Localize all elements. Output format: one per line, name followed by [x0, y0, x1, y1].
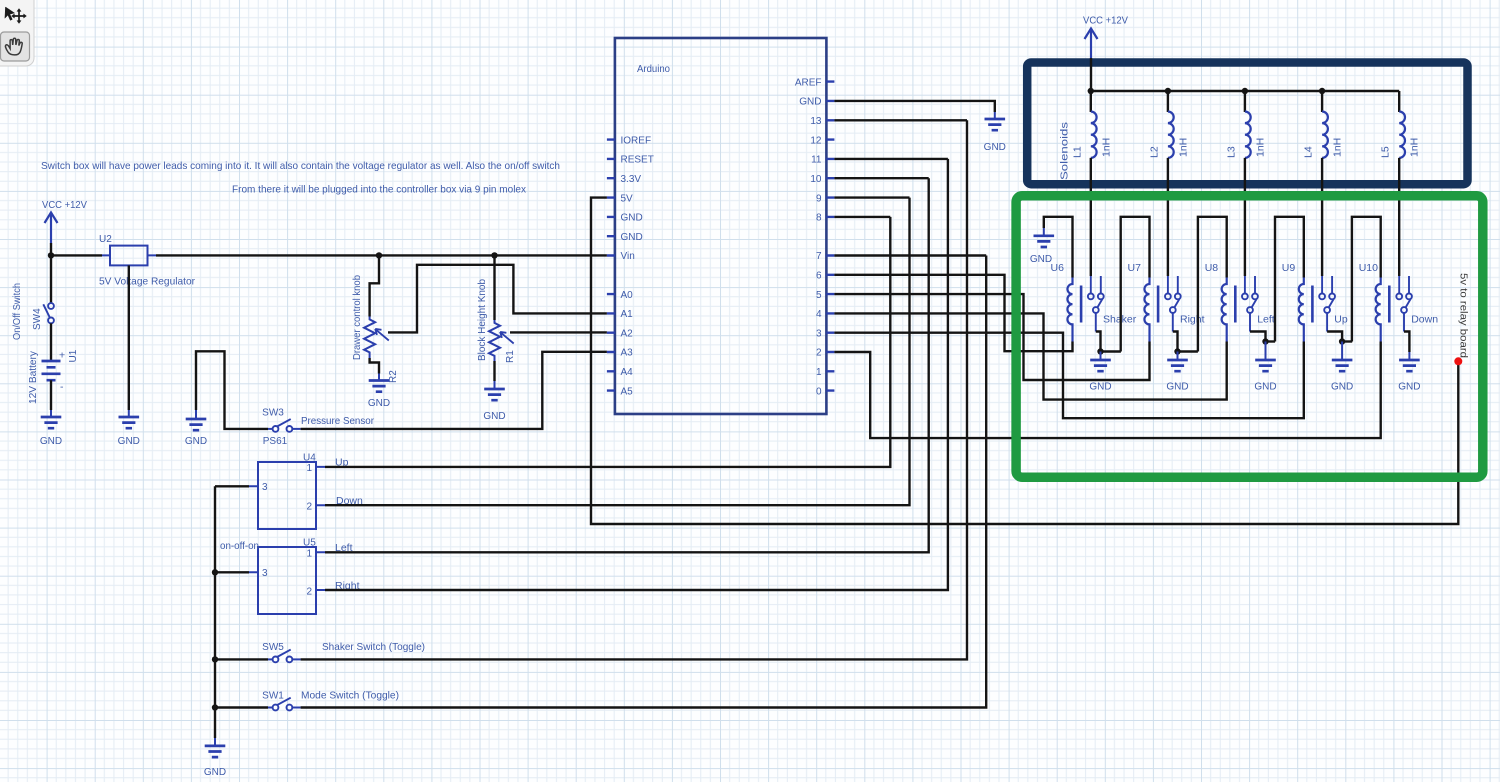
- svg-text:From there it will be plugged: From there it will be plugged into the c…: [232, 184, 527, 196]
- toolbar pan hand icon: [5, 38, 22, 55]
- svg-text:SW3: SW3: [262, 408, 284, 419]
- wire SW3 to A3: [301, 352, 607, 429]
- wire pin 11 row: [834, 158, 948, 160]
- wire bus to SW1: [215, 706, 268, 708]
- wire pin 4 to U8 coil: [834, 313, 1226, 399]
- ground (battery): [50, 410, 52, 417]
- wire junction to R1: [493, 255, 495, 320]
- switch SW3 pressure sensor: [268, 428, 272, 430]
- ground (relay U7): [1177, 352, 1179, 361]
- relay enclosure box: [1016, 196, 1483, 477]
- wire L4 to relay contact: [1321, 158, 1323, 276]
- svg-text:3.3V: 3.3V: [621, 174, 642, 185]
- ground (relay U6 top): [1043, 228, 1045, 236]
- wire VCC to junction: [50, 243, 52, 255]
- svg-text:GND: GND: [1331, 382, 1353, 393]
- potentiometer R1: [489, 320, 500, 361]
- U4 pin stubs: [249, 467, 325, 505]
- svg-text:GND: GND: [185, 436, 207, 447]
- svg-text:+: +: [59, 350, 65, 362]
- relay U6 coil: [1067, 278, 1072, 342]
- battery U1: [42, 361, 61, 380]
- svg-text:GND: GND: [118, 436, 140, 447]
- wire left bus vertical: [214, 486, 216, 738]
- relay U9 coil: [1299, 278, 1304, 342]
- relay U9 contact throw stubs: [1322, 276, 1332, 294]
- svg-text:L5: L5: [1380, 146, 1392, 158]
- wire U7 coil top inverted-U: [1121, 217, 1150, 352]
- wire L2 to relay contact: [1167, 158, 1169, 276]
- svg-text:1nH: 1nH: [1177, 138, 1189, 157]
- svg-text:U2: U2: [99, 234, 112, 245]
- svg-text:U5: U5: [303, 538, 316, 549]
- ground (R2): [378, 374, 380, 381]
- node bus/SW1: [212, 704, 218, 710]
- node bus/SW5: [212, 656, 218, 662]
- node junction VCC/U2: [48, 252, 54, 258]
- wire pin 8 row: [834, 216, 890, 218]
- svg-text:5v to relay board: 5v to relay board: [1458, 273, 1470, 358]
- svg-text:2: 2: [306, 502, 312, 513]
- svg-text:4: 4: [816, 309, 822, 320]
- svg-text:12: 12: [810, 135, 822, 146]
- svg-text:GND: GND: [1030, 254, 1052, 265]
- inductor L5: [1399, 112, 1405, 158]
- node 5v dangling (red): [1454, 357, 1462, 365]
- svg-text:1nH: 1nH: [1332, 138, 1344, 157]
- wire bus to L4: [1321, 91, 1323, 112]
- regulator U2 body: [110, 246, 148, 266]
- wire battery to GND: [50, 380, 52, 410]
- node Vin junction (R1): [491, 252, 497, 258]
- ground (relay U10): [1408, 352, 1410, 360]
- svg-text:1nH: 1nH: [1409, 138, 1421, 157]
- svg-text:A1: A1: [621, 309, 634, 320]
- relay U7 contact circles: [1165, 294, 1171, 300]
- wire U9 common to ground: [1327, 332, 1342, 342]
- Arduino U3 body: [615, 38, 827, 414]
- svg-text:8: 8: [816, 213, 822, 224]
- svg-text:1nH: 1nH: [1254, 138, 1266, 157]
- svg-text:GND: GND: [1254, 382, 1276, 393]
- svg-text:U10: U10: [1359, 262, 1378, 274]
- svg-text:GND: GND: [621, 232, 643, 243]
- svg-text:L3: L3: [1225, 146, 1237, 158]
- svg-text:12V Battery: 12V Battery: [28, 351, 39, 404]
- wire pin 2 to U10 coil: [834, 342, 1380, 439]
- wire U9 junction to next relay: [1342, 340, 1352, 342]
- ground (Arduino): [994, 112, 996, 119]
- svg-text:9: 9: [816, 193, 822, 204]
- svg-text:Arduino: Arduino: [637, 63, 670, 75]
- Arduino right pin stubs: [826, 82, 834, 391]
- svg-text:Down: Down: [1411, 314, 1438, 326]
- svg-text:U1: U1: [68, 349, 79, 362]
- ground (U2): [128, 410, 130, 417]
- U5 pin stubs: [249, 552, 325, 590]
- svg-text:L2: L2: [1148, 146, 1160, 158]
- wire bus to SW5: [215, 658, 268, 660]
- svg-text:GND: GND: [368, 398, 390, 409]
- wire R1 wiper to A2: [510, 331, 607, 333]
- relay U8 coil: [1222, 278, 1227, 342]
- svg-text:U7: U7: [1128, 262, 1142, 274]
- wire R1 to GND: [493, 361, 495, 381]
- switch block U4 body: [258, 462, 316, 529]
- wire SW5 to pin13 riser: [301, 120, 967, 659]
- ground (relay U6): [1100, 352, 1102, 361]
- svg-text:Mode Switch (Toggle): Mode Switch (Toggle): [301, 690, 399, 702]
- inductor L3: [1245, 112, 1251, 158]
- svg-text:GND: GND: [799, 97, 821, 108]
- switch SW5: [268, 658, 272, 660]
- node U9 common junction: [1339, 338, 1345, 344]
- wire Right (U5.2 to pin11 riser): [325, 159, 948, 590]
- wire pin 5 to U7 coil: [834, 294, 1149, 380]
- wire junction to R2: [370, 255, 379, 316]
- wire L5 to relay contact: [1398, 158, 1400, 276]
- toolbar pan-tool button (selected): [1, 32, 30, 61]
- node U7 common junction: [1174, 348, 1180, 354]
- svg-text:1: 1: [306, 549, 312, 560]
- relay U7 coil: [1144, 278, 1149, 342]
- wire SW4 to battery: [50, 323, 52, 361]
- svg-text:SW5: SW5: [262, 642, 284, 653]
- svg-text:Solenoids: Solenoids: [1059, 122, 1071, 180]
- ground (switch bus): [214, 738, 216, 746]
- wire U2 to GND: [128, 265, 130, 410]
- toolbar move-tool icon: [5, 7, 27, 24]
- svg-text:GND: GND: [621, 213, 643, 224]
- inductor L1: [1091, 112, 1097, 158]
- relay U7 core bar: [1157, 286, 1160, 323]
- wire GND pin to ground: [834, 101, 994, 112]
- svg-text:GND: GND: [1398, 382, 1420, 393]
- svg-text:2: 2: [306, 587, 312, 598]
- wire GND to SW3 (n-shape): [196, 351, 268, 429]
- wire bus to L5: [1398, 91, 1400, 112]
- svg-text:SW4: SW4: [32, 308, 43, 330]
- relay U7 contact throw stubs: [1168, 276, 1178, 294]
- power flag VCC +12V (solenoids): [1090, 29, 1092, 60]
- svg-text:IOREF: IOREF: [621, 135, 652, 146]
- relay U10 contact circles: [1396, 294, 1402, 300]
- svg-text:VCC +12V: VCC +12V: [1083, 15, 1128, 27]
- svg-text:A3: A3: [621, 348, 634, 359]
- relay U6 contact circles: [1088, 294, 1094, 300]
- svg-text:Block Height Knob: Block Height Knob: [477, 279, 488, 361]
- relay U10 common lead: [1403, 313, 1405, 332]
- node U8 common junction: [1262, 338, 1268, 344]
- wire junction to U2: [51, 254, 102, 256]
- relay U8 contact throw stubs: [1245, 276, 1255, 294]
- svg-text:L1: L1: [1071, 146, 1083, 158]
- wire U7 junction to next relay: [1178, 350, 1198, 352]
- svg-text:On/Off Switch: On/Off Switch: [12, 283, 23, 340]
- inductor L2: [1168, 112, 1174, 158]
- svg-text:3: 3: [262, 482, 268, 493]
- wire bus to L3: [1244, 91, 1246, 112]
- relay U10 contact throw stubs: [1399, 276, 1409, 294]
- relay U8 core bar: [1234, 286, 1237, 323]
- wire Left (U5.1 to pin10 riser): [325, 178, 929, 552]
- wire junction down to SW4: [50, 255, 52, 302]
- wire VCC to solenoid bus: [1090, 58, 1092, 91]
- svg-text:GND: GND: [984, 142, 1006, 153]
- svg-text:Drawer control knob: Drawer control knob: [352, 275, 363, 360]
- inductor L4: [1322, 112, 1328, 158]
- svg-text:10: 10: [810, 174, 822, 185]
- wire U9 coil top inverted-U: [1275, 217, 1304, 342]
- relay U10 core bar: [1388, 286, 1391, 323]
- svg-text:on-off-on: on-off-on: [220, 540, 259, 552]
- svg-text:Right: Right: [1180, 314, 1205, 326]
- svg-text:SW1: SW1: [262, 691, 284, 702]
- node bus/U5 pin3: [212, 569, 218, 575]
- wire L3 to relay contact: [1244, 158, 1246, 276]
- svg-text:U6: U6: [1051, 262, 1065, 274]
- svg-text:U4: U4: [303, 453, 316, 464]
- svg-text:A4: A4: [621, 367, 634, 378]
- ground (R1): [494, 381, 496, 389]
- svg-text:Left: Left: [1257, 314, 1275, 326]
- wire U6 top to GND (n-shape): [1044, 217, 1073, 278]
- svg-text:3: 3: [262, 568, 268, 579]
- wire U2 to Vin (net VIN): [156, 254, 607, 256]
- wire Up (U4.1 to pin8 riser): [325, 217, 890, 467]
- svg-text:RESET: RESET: [621, 155, 654, 166]
- relay U8 contact circles: [1242, 294, 1248, 300]
- ground (relay U8): [1265, 342, 1267, 361]
- relay U6 common lead: [1095, 313, 1097, 332]
- svg-text:1: 1: [816, 367, 822, 378]
- ground (relay U9): [1341, 342, 1343, 361]
- wire U7 common to ground: [1173, 332, 1178, 352]
- svg-text:5V: 5V: [621, 193, 634, 204]
- toolbar panel: [0, 0, 34, 66]
- wire U6 junction to next relay: [1101, 350, 1121, 352]
- svg-text:Switch box will have power lea: Switch box will have power leads coming …: [41, 160, 560, 172]
- relay U9 core bar: [1311, 286, 1314, 323]
- wire bus to L1: [1090, 91, 1092, 112]
- svg-text:Up: Up: [1334, 314, 1348, 326]
- relay U9 contact circles: [1319, 294, 1325, 300]
- ground (pressure sensor): [195, 410, 197, 419]
- wire L1 to relay contact: [1090, 158, 1092, 276]
- wire R2 to GND: [370, 358, 379, 374]
- node Vin junction (R2): [376, 252, 382, 258]
- wire solenoid bus: [1091, 90, 1399, 92]
- wire 5V to relay board: [591, 198, 1458, 524]
- wire pin 7 row: [834, 254, 986, 256]
- wire pin 3 to U9 coil: [834, 333, 1303, 419]
- svg-text:GND: GND: [40, 436, 62, 447]
- wire U10 common to ground: [1404, 332, 1409, 353]
- svg-text:2: 2: [816, 348, 822, 359]
- solenoid enclosure box: [1027, 63, 1467, 185]
- Arduino left pin stubs: [607, 140, 615, 391]
- svg-text:R1: R1: [505, 350, 516, 363]
- svg-text:6: 6: [816, 271, 822, 282]
- svg-text:Shaker Switch (Toggle): Shaker Switch (Toggle): [322, 641, 425, 653]
- wire bus to U4 pin3: [215, 485, 249, 487]
- wire bus to U5 pin3: [215, 571, 249, 573]
- svg-text:5V Voltage Regulator: 5V Voltage Regulator: [99, 276, 195, 288]
- wire SW1 to pin7 riser: [301, 256, 987, 708]
- node bus/L3: [1242, 88, 1248, 94]
- wire bus to L2: [1167, 91, 1169, 112]
- svg-text:GND: GND: [1089, 382, 1111, 393]
- switch block U5 body: [258, 547, 316, 614]
- svg-text:R2: R2: [388, 370, 399, 383]
- svg-text:U9: U9: [1282, 262, 1296, 274]
- wire U6 common to ground: [1096, 332, 1101, 352]
- svg-text:1: 1: [306, 463, 312, 474]
- svg-text:A5: A5: [621, 386, 634, 397]
- wire pin 6 to U6 coil: [834, 275, 1072, 351]
- svg-text:U8: U8: [1205, 262, 1219, 274]
- wire Down (U4.2 to pin9 riser): [325, 198, 910, 506]
- node bus/L1: [1088, 88, 1094, 94]
- svg-text:3: 3: [816, 328, 822, 339]
- svg-text:AREF: AREF: [795, 77, 822, 88]
- relay U10 coil: [1376, 278, 1381, 342]
- svg-text:A2: A2: [621, 328, 634, 339]
- regulator U2 pin stubs: [102, 254, 156, 256]
- svg-text:GND: GND: [483, 411, 505, 422]
- svg-text:0: 0: [816, 386, 822, 397]
- potentiometer R2: [364, 317, 375, 359]
- relay U7 common lead: [1172, 313, 1174, 332]
- svg-text:Vin: Vin: [621, 251, 635, 262]
- svg-text:-: -: [60, 381, 64, 393]
- wire U8 coil top inverted-U: [1198, 217, 1227, 352]
- switch SW4: [48, 303, 54, 309]
- relay U8 common lead: [1249, 313, 1251, 332]
- svg-text:L4: L4: [1303, 146, 1315, 158]
- wire pin 9 row: [834, 196, 909, 198]
- switch SW1: [268, 707, 272, 709]
- wire U10 coil top inverted-U: [1352, 217, 1381, 342]
- wire R2 wiper to A1: [388, 265, 607, 333]
- power flag VCC +12V (left): [50, 213, 52, 244]
- svg-text:11: 11: [811, 155, 822, 166]
- node bus/L4: [1319, 88, 1325, 94]
- svg-text:A0: A0: [621, 290, 634, 301]
- node U6 common junction: [1097, 348, 1103, 354]
- wire U8 junction to next relay: [1266, 340, 1276, 342]
- svg-text:GND: GND: [204, 767, 226, 778]
- svg-text:5: 5: [816, 290, 822, 301]
- svg-text:Pressure Sensor: Pressure Sensor: [301, 415, 374, 427]
- relay U6 contact throw stubs: [1091, 276, 1101, 294]
- svg-text:13: 13: [810, 116, 822, 127]
- svg-text:GND: GND: [1166, 382, 1188, 393]
- wire pin 13 row: [834, 119, 967, 121]
- node bus/L2: [1165, 88, 1171, 94]
- wire pin 10 row: [834, 177, 928, 179]
- svg-text:VCC +12V: VCC +12V: [42, 199, 87, 211]
- svg-text:1nH: 1nH: [1100, 138, 1112, 157]
- relay U6 core bar: [1080, 286, 1083, 323]
- svg-text:7: 7: [816, 251, 822, 262]
- relay U9 common lead: [1326, 313, 1328, 332]
- svg-text:PS61: PS61: [263, 436, 288, 447]
- wire U8 common to ground: [1250, 332, 1266, 342]
